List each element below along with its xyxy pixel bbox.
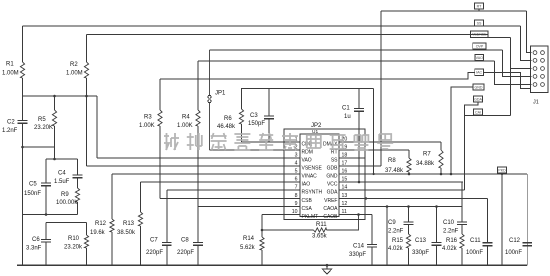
node label NET9	[474, 109, 483, 115]
svg-text:18: 18	[342, 152, 348, 158]
wire RT net to R8	[365, 149, 409, 151]
wire NET1 stub	[478, 9, 480, 11]
capacitor C8	[197, 207, 199, 243]
wire VCC net y182	[365, 181, 463, 183]
node CAOA-C9 junction	[407, 205, 410, 208]
svg-text:2.2nF: 2.2nF	[388, 229, 404, 235]
svg-text:1.00M: 1.00M	[2, 71, 19, 77]
pin 8 stub CSB	[284, 198, 300, 200]
svg-text:19.6k: 19.6k	[90, 230, 106, 236]
svg-text:23.20k: 23.20k	[64, 245, 83, 251]
wire GND net y174	[365, 173, 527, 175]
svg-text:CSA: CSA	[302, 206, 313, 212]
svg-text:VREF: VREF	[324, 198, 337, 204]
resistor R2	[86, 35, 88, 63]
svg-text:SS: SS	[477, 21, 482, 25]
node label NET4	[473, 43, 486, 49]
wire node y96 horizontal	[23, 95, 98, 97]
resistor R13	[140, 182, 142, 212]
svg-text:150nF: 150nF	[24, 191, 41, 197]
wire GND to C12 drop	[526, 174, 528, 265]
node CAOA-C13 junction	[435, 205, 438, 208]
capacitor C10	[461, 182, 463, 222]
node C2-R5 junction y96	[53, 95, 56, 98]
pin 9 stub CSA	[284, 206, 300, 208]
pin 19 stub RT	[339, 149, 365, 151]
wire PKLMT net y214	[262, 214, 284, 216]
svg-text:220pF: 220pF	[146, 250, 163, 256]
svg-text:C13: C13	[415, 238, 427, 244]
connector JP2 outline	[284, 129, 365, 220]
ground	[326, 264, 329, 267]
wire IAO net y182	[141, 181, 285, 183]
svg-text:23.20K: 23.20K	[34, 125, 53, 131]
wire GDB net to x381	[365, 165, 381, 167]
svg-text:100nF: 100nF	[505, 250, 522, 256]
wire harness J1 pin2	[521, 26, 532, 60]
wire R5 bottom to comp network	[54, 147, 56, 159]
node R2 bottom junction	[85, 95, 88, 98]
resistor R5	[54, 96, 56, 110]
resistor R14	[261, 230, 263, 237]
pin 17 stub GDB	[339, 165, 365, 167]
svg-text:VAO: VAO	[302, 157, 312, 163]
wire net R2-top bus y34	[87, 34, 489, 36]
svg-text:2.2nF: 2.2nF	[443, 229, 459, 235]
svg-text:IAC: IAC	[476, 71, 482, 75]
wire CSA net y206	[198, 206, 284, 208]
node GND-x502 crossing	[501, 173, 503, 175]
wire x97 VAO drop	[96, 96, 98, 158]
pin 14 stub GDA	[339, 189, 365, 191]
svg-text:5.62k: 5.62k	[240, 245, 256, 251]
svg-text:4.02k: 4.02k	[388, 246, 404, 252]
svg-text:PKD: PKD	[498, 168, 506, 172]
wire NET8 riser	[465, 102, 479, 190]
resistor R12	[111, 174, 113, 219]
capacitor C1	[358, 89, 360, 109]
svg-text:1u: 1u	[344, 114, 351, 120]
node label NET3 VSENSE	[471, 31, 488, 38]
node label NET1 (top)	[475, 3, 484, 9]
wire comp net bottom y214	[23, 214, 78, 216]
wire CAOB ext to C14	[365, 214, 372, 216]
jumper JP1	[209, 50, 211, 95]
resistor R8	[408, 150, 410, 158]
capacitor C11	[487, 199, 489, 243]
svg-text:C4: C4	[58, 171, 66, 177]
wire net DMAX top bus y11	[381, 10, 527, 12]
resistor R4	[197, 61, 199, 110]
svg-text:GND: GND	[475, 85, 483, 89]
pin 10 stub PKLMT	[284, 214, 300, 216]
svg-text:C7: C7	[150, 238, 158, 244]
pin 12 stub CAOA	[339, 206, 365, 208]
wire NET9 harness	[465, 114, 479, 117]
connector J1	[531, 46, 549, 92]
wire net CT top y88	[241, 88, 374, 90]
svg-text:13: 13	[342, 193, 348, 199]
wire comp net top y159	[46, 158, 78, 160]
svg-text:J1: J1	[533, 99, 539, 105]
svg-text:GDA: GDA	[327, 189, 339, 195]
svg-text:CSB: CSB	[302, 198, 313, 204]
svg-text:VSENSE: VSENSE	[302, 165, 323, 171]
wire VREF net y198	[365, 198, 488, 200]
svg-text:CAI: CAI	[475, 110, 481, 114]
node label NET10 PKD	[498, 167, 507, 173]
node label NET5	[475, 55, 484, 61]
wire harness J1 pin1	[527, 11, 532, 53]
svg-text:38.50k: 38.50k	[117, 230, 136, 236]
svg-text:C11: C11	[470, 238, 481, 244]
node comp top junction	[53, 158, 56, 161]
node CAOA-x387 junction	[386, 205, 389, 208]
wire VAO net y158	[97, 157, 284, 159]
svg-text:RT: RT	[331, 149, 338, 155]
svg-text:C6: C6	[32, 237, 40, 243]
svg-text:330pF: 330pF	[349, 252, 366, 258]
svg-text:1.5uF: 1.5uF	[54, 179, 70, 185]
resistor R10	[86, 223, 88, 236]
svg-text:12: 12	[342, 201, 348, 207]
pin 5 stub VINAC	[284, 173, 300, 175]
wire left rail down to ground	[22, 215, 24, 266]
svg-text:R13: R13	[123, 221, 135, 227]
svg-text:C14: C14	[353, 244, 365, 250]
svg-text:37.48k: 37.48k	[385, 168, 404, 174]
svg-text:16: 16	[342, 168, 348, 174]
wire harness J1 pin3	[509, 38, 511, 116]
svg-text:RSYNTH: RSYNTH	[302, 189, 323, 195]
svg-text:100nF: 100nF	[466, 250, 483, 256]
svg-text:IAO: IAO	[302, 181, 311, 187]
svg-text:1.00K: 1.00K	[139, 123, 155, 129]
svg-text:R2: R2	[70, 62, 78, 68]
svg-text:5: 5	[295, 168, 298, 174]
node GND-R7 junction	[440, 173, 443, 176]
svg-text:GDA: GDA	[474, 97, 482, 101]
wire harness J1 pin3 stub	[510, 68, 531, 70]
svg-text:PKLMT: PKLMT	[302, 214, 319, 220]
svg-text:R10: R10	[68, 236, 80, 242]
pin 3 stub VAO	[284, 157, 300, 159]
wire harness J1 pin5	[495, 61, 532, 85]
pin 2 stub RDM	[284, 149, 300, 151]
node VCC-C1 junction	[358, 181, 361, 184]
svg-text:RT: RT	[477, 4, 483, 8]
svg-text:150pF: 150pF	[248, 121, 265, 127]
svg-text:RDM: RDM	[302, 149, 313, 155]
wire NET9 to x510	[478, 115, 510, 117]
capacitor C7	[166, 190, 168, 243]
node label NET6 IAC	[475, 69, 484, 76]
svg-text:R11: R11	[316, 222, 327, 228]
pin 13 stub VREF	[339, 198, 365, 200]
svg-text:VAO: VAO	[476, 56, 484, 60]
capacitor C6	[45, 223, 47, 240]
capacitor C4	[77, 159, 79, 175]
svg-text:8: 8	[295, 193, 298, 199]
wire VINAC net y174	[112, 173, 284, 175]
svg-text:11: 11	[342, 209, 347, 215]
pin 6 stub IAO	[284, 181, 300, 183]
wire GDA net y190	[365, 189, 465, 191]
svg-text:R9: R9	[61, 192, 69, 198]
svg-text:R4: R4	[182, 115, 190, 121]
pin 7 stub RSYNTH	[284, 189, 300, 191]
capacitor C2	[22, 96, 24, 121]
resistor R1	[22, 26, 24, 62]
wire x86 VSENSE drop	[86, 96, 88, 166]
resistor R9	[75, 188, 79, 202]
resistor R6	[241, 89, 243, 110]
svg-text:34.88k: 34.88k	[416, 161, 435, 167]
svg-text:10: 10	[292, 209, 298, 215]
svg-text:4.02k: 4.02k	[442, 246, 458, 252]
svg-text:C8: C8	[181, 238, 189, 244]
svg-text:R3: R3	[144, 115, 152, 121]
svg-text:R1: R1	[6, 62, 14, 68]
svg-text:9: 9	[295, 201, 298, 207]
svg-text:JP2: JP2	[311, 123, 322, 129]
wire ground rail	[17, 264, 527, 266]
svg-text:CAOB: CAOB	[323, 214, 338, 220]
op-amp U1 (PFC controller IC body)	[300, 134, 339, 217]
node GND-R8 junction	[408, 173, 411, 176]
svg-text:3: 3	[295, 152, 298, 158]
wire NET4 stub	[479, 49, 481, 50]
wire VSENSE net y166	[87, 165, 285, 167]
resistor R15	[408, 231, 410, 234]
svg-text:6: 6	[295, 176, 298, 182]
pin 15 stub VCC	[339, 181, 365, 183]
capacitor C9	[408, 207, 410, 223]
svg-text:VCC: VCC	[327, 181, 338, 187]
svg-text:220pF: 220pF	[177, 250, 194, 256]
wire NET10 drop to rail	[501, 173, 503, 265]
pin 11 stub CAOB	[339, 214, 365, 216]
svg-text:GND: GND	[326, 173, 338, 179]
pin 18 stub SS	[339, 157, 365, 159]
svg-text:4: 4	[295, 160, 298, 166]
node VREF-box junction	[365, 197, 367, 199]
svg-text:R6: R6	[224, 116, 232, 122]
svg-text:JP1: JP1	[215, 91, 226, 97]
wire net JP1-top bus y50	[210, 49, 503, 51]
wire CSB net y198	[160, 198, 284, 200]
svg-text:1.2nF: 1.2nF	[2, 128, 18, 134]
svg-text:C2: C2	[7, 120, 15, 126]
pin 1 stub CDR	[284, 141, 300, 143]
capacitor C5	[45, 159, 47, 183]
wire PKLMT drop x262	[261, 215, 263, 231]
node CAOB-R11 junction	[357, 213, 360, 216]
wire C6-R10 top y222	[46, 222, 87, 224]
svg-text:GDB: GDB	[327, 165, 339, 171]
node label NET7 GND	[473, 84, 484, 90]
node label NET2	[475, 20, 484, 26]
capacitor C14	[371, 215, 373, 245]
pin 4 stub VSENSE	[284, 165, 300, 167]
wire x387 drop to rail	[386, 207, 388, 266]
resistor R3	[159, 79, 161, 110]
svg-text:14: 14	[342, 184, 348, 190]
svg-text:1.00K: 1.00K	[177, 123, 193, 129]
svg-text:C9: C9	[388, 220, 396, 226]
capacitor C3	[268, 89, 270, 117]
svg-text:R8: R8	[388, 158, 396, 164]
svg-text:R15: R15	[392, 238, 404, 244]
svg-text:CAOA: CAOA	[323, 206, 338, 212]
svg-text:C3: C3	[250, 113, 258, 119]
svg-text:3.3nF: 3.3nF	[26, 246, 42, 252]
wire C2 bottom to node y147	[22, 147, 24, 215]
wire DMAX net to R7	[365, 141, 441, 143]
svg-text:17: 17	[342, 160, 348, 166]
capacitor C12	[526, 174, 528, 243]
wire NET6 to connector	[484, 73, 531, 89]
svg-text:15: 15	[342, 176, 348, 182]
wire net R3-top bus y79	[160, 73, 475, 80]
wire CDR net y142	[242, 141, 301, 143]
resistor R16	[461, 231, 463, 234]
capacitor C13	[436, 207, 438, 243]
svg-text:R16: R16	[446, 238, 458, 244]
node R14-R11 junction	[261, 229, 264, 232]
svg-text:R7: R7	[423, 152, 431, 158]
node comp bottom junction	[45, 213, 48, 216]
node y147 junction	[21, 146, 24, 149]
resistor R7	[440, 142, 442, 150]
wire harness J1 pin4	[503, 50, 532, 76]
svg-text:OVP: OVP	[476, 44, 484, 48]
watermark	[164, 133, 393, 150]
svg-text:C1: C1	[342, 106, 350, 112]
pin 20 stub DMAX	[339, 141, 365, 143]
svg-text:1.00M: 1.00M	[66, 71, 83, 77]
svg-text:46.48k: 46.48k	[217, 124, 236, 130]
svg-text:3.65k: 3.65k	[312, 233, 328, 239]
svg-text:R12: R12	[95, 221, 107, 227]
wire RSYNTH net y190	[167, 189, 284, 191]
svg-text:VSENSE: VSENSE	[472, 33, 487, 37]
pin 16 stub GND	[339, 173, 365, 175]
svg-text:R5: R5	[38, 117, 46, 123]
wire x373 drop to GND line	[373, 89, 375, 175]
svg-text:7: 7	[295, 184, 298, 190]
wire net R1-top bus y26	[23, 25, 521, 27]
svg-text:VINAC: VINAC	[302, 173, 318, 179]
svg-text:R14: R14	[243, 236, 255, 242]
svg-text:330pF: 330pF	[412, 250, 429, 256]
svg-text:C10: C10	[443, 220, 455, 226]
resistor R11	[262, 229, 314, 231]
node GND-CT junction	[373, 173, 375, 175]
wire node y147 horizontal	[23, 146, 55, 148]
wire CAOA net y206	[365, 206, 462, 208]
svg-text:C12: C12	[509, 238, 521, 244]
wire x381 DMAX drop	[380, 11, 382, 166]
node GND-x451 junction	[450, 173, 453, 176]
wire net R4-top bus y61	[198, 60, 495, 62]
svg-text:100.00k: 100.00k	[56, 200, 78, 206]
svg-text:SS: SS	[331, 157, 338, 163]
wire NET3 step	[488, 35, 510, 38]
svg-text:C5: C5	[29, 182, 37, 188]
wire RDM net y150	[210, 149, 285, 151]
node label NET8 GDA	[474, 96, 483, 102]
wire NET7 left harness	[451, 87, 473, 174]
